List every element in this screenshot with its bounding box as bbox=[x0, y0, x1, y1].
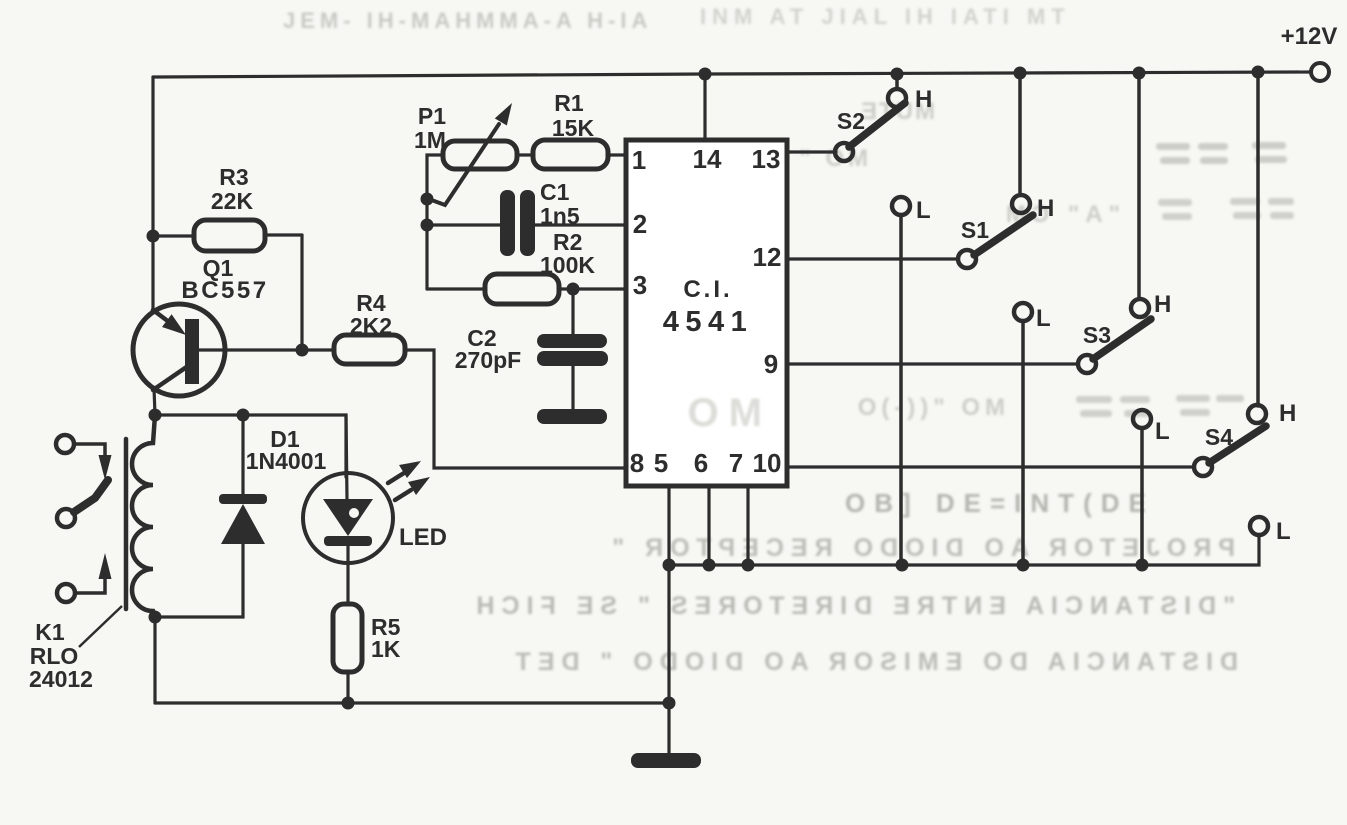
relay K1 coil bbox=[126, 415, 155, 617]
relay blade bbox=[74, 480, 108, 512]
wire pin6 bbox=[707, 486, 710, 565]
svg-text:15K: 15K bbox=[552, 115, 595, 141]
wire ground bus bbox=[669, 535, 1259, 565]
svg-text:1: 1 bbox=[632, 145, 646, 175]
svg-text:S3: S3 bbox=[1083, 322, 1111, 348]
svg-text:13: 13 bbox=[752, 144, 781, 174]
svg-text:C1: C1 bbox=[540, 179, 570, 205]
svg-text:3: 3 bbox=[633, 270, 647, 300]
svg-text:10: 10 bbox=[753, 448, 782, 478]
svg-text:24012: 24012 bbox=[29, 666, 93, 692]
wire bottom return bbox=[155, 565, 676, 757]
potentiometer P1 bbox=[421, 103, 518, 289]
resistor R4 bbox=[334, 335, 624, 468]
svg-text:4541: 4541 bbox=[663, 306, 754, 338]
svg-text:H: H bbox=[1154, 291, 1171, 318]
svg-text:14: 14 bbox=[693, 144, 722, 174]
svg-text:R1: R1 bbox=[554, 90, 584, 116]
terminal +12V bbox=[1311, 63, 1329, 81]
svg-text:1N4001: 1N4001 bbox=[246, 448, 327, 474]
svg-text:INM AT JIAL IH IATI MT: INM AT JIAL IH IATI MT bbox=[700, 4, 1071, 29]
faint bleed-through text top band bbox=[283, 4, 1294, 676]
svg-text:9: 9 bbox=[764, 349, 778, 379]
svg-text:6: 6 bbox=[694, 448, 708, 478]
svg-text:MO: MO bbox=[678, 391, 762, 435]
svg-text:270pF: 270pF bbox=[455, 347, 521, 373]
resistor R1 bbox=[517, 140, 624, 169]
node junction rail-S4H bbox=[1252, 66, 1265, 79]
resistor R5 bbox=[333, 604, 362, 703]
svg-text:+12V: +12V bbox=[1281, 23, 1338, 50]
ground bbox=[631, 753, 701, 768]
wire pin13 bbox=[787, 150, 836, 153]
LED bbox=[303, 415, 430, 604]
svg-text:7: 7 bbox=[729, 448, 743, 478]
wire left rail bbox=[151, 77, 154, 313]
svg-text:L: L bbox=[1155, 418, 1170, 445]
relay contact top bbox=[56, 435, 74, 453]
svg-text:S1: S1 bbox=[961, 217, 989, 243]
faint bleed-through dashes row2 bbox=[1158, 198, 1294, 220]
switch S2 bbox=[835, 74, 910, 565]
wire collector bus bbox=[149, 409, 347, 478]
wire pin14 bbox=[663, 74, 1260, 572]
node junction rail-S3H bbox=[1133, 67, 1146, 80]
switch S1 bbox=[958, 73, 1033, 565]
svg-text:OB] DE=INT(DE: OB] DE=INT(DE bbox=[845, 488, 1155, 518]
svg-text:C.I.: C.I. bbox=[683, 276, 732, 303]
svg-text:1M: 1M bbox=[414, 127, 446, 153]
wire pin7 bbox=[746, 486, 749, 565]
op-amp U1 IC 4541 bbox=[626, 140, 787, 486]
svg-text:H: H bbox=[1279, 400, 1296, 427]
resistor R2 bbox=[427, 274, 624, 304]
svg-text:P1: P1 bbox=[418, 103, 446, 129]
svg-text:R3: R3 bbox=[219, 164, 248, 190]
node junction rail-pin14 bbox=[699, 68, 712, 81]
transistor Q1 bbox=[133, 304, 334, 415]
svg-text:"DISTANCIA ENTRE DIRETORES ": "DISTANCIA ENTRE DIRETORES " SE FICH bbox=[469, 592, 1235, 620]
wire pin10 bbox=[787, 465, 1194, 468]
svg-text:5: 5 bbox=[654, 448, 668, 478]
svg-text:S4: S4 bbox=[1205, 424, 1233, 450]
svg-text:1n5: 1n5 bbox=[540, 203, 580, 229]
svg-text:22K: 22K bbox=[211, 188, 254, 214]
wire pin5 bbox=[667, 486, 670, 565]
svg-text:L: L bbox=[1276, 518, 1291, 545]
wire pin12 bbox=[787, 257, 958, 260]
LED emission arrows bbox=[388, 473, 404, 483]
capacitor C1 bbox=[427, 190, 624, 256]
svg-text:BC557: BC557 bbox=[181, 277, 268, 304]
faint bleed-through dashes row1 bbox=[1156, 142, 1287, 164]
svg-text:S2: S2 bbox=[837, 108, 865, 134]
svg-text:H: H bbox=[915, 86, 932, 113]
svg-text:12: 12 bbox=[753, 242, 782, 272]
svg-text:DISTANCIA DO EMISOR AO DIODO: DISTANCIA DO EMISOR AO DIODO " DET bbox=[509, 648, 1239, 676]
svg-text:JEM- IH-MAHMMA-A H-IA: JEM- IH-MAHMMA-A H-IA bbox=[283, 8, 652, 33]
svg-text:8: 8 bbox=[630, 448, 644, 478]
node junction rail-S2H bbox=[891, 68, 904, 81]
wire pin9 bbox=[787, 362, 1078, 365]
diode D1 bbox=[149, 415, 268, 703]
svg-text:2K2: 2K2 bbox=[350, 313, 392, 339]
svg-text:2: 2 bbox=[633, 209, 647, 239]
switch S3 bbox=[1078, 73, 1151, 565]
svg-text:K1: K1 bbox=[35, 619, 65, 645]
switch S4 bbox=[1194, 72, 1268, 535]
svg-text:100K: 100K bbox=[540, 252, 595, 278]
svg-text:H: H bbox=[1037, 195, 1054, 222]
svg-text:1K: 1K bbox=[371, 636, 401, 662]
faint bleed-through dashes row3 bbox=[1076, 395, 1244, 417]
svg-text:L: L bbox=[916, 197, 931, 224]
relay contact bottom bbox=[57, 584, 75, 602]
svg-text:MO ": MO " bbox=[795, 145, 868, 172]
node junction rail-S1H bbox=[1014, 67, 1027, 80]
resistor R3 bbox=[153, 234, 194, 237]
svg-text:L: L bbox=[1036, 305, 1051, 332]
svg-text:LED: LED bbox=[399, 524, 447, 551]
svg-text:MO "((-)O: MO "((-)O bbox=[853, 394, 1005, 421]
capacitor C2 bbox=[537, 289, 608, 424]
wire +12V top rail bbox=[153, 72, 1311, 77]
